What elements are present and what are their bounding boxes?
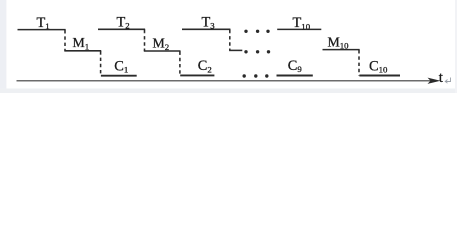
corner stub T1 bbox=[64, 30, 66, 34]
segment T10 bbox=[277, 28, 321, 30]
svg-text:M1: M1 bbox=[73, 35, 90, 51]
dashed drop T2 to M2 bbox=[144, 33, 146, 51]
dashed drop M1 to C1 bbox=[100, 54, 102, 75]
segment M10 bbox=[323, 49, 360, 51]
svg-text:C10: C10 bbox=[369, 58, 388, 74]
svg-text:M10: M10 bbox=[328, 34, 350, 50]
svg-text:t: t bbox=[439, 70, 444, 86]
ellipsis dots M row bbox=[244, 50, 270, 53]
svg-text:C1: C1 bbox=[114, 59, 128, 75]
corner stub M10 bbox=[358, 50, 360, 54]
svg-text:M2: M2 bbox=[153, 36, 170, 52]
corner stub M1 bbox=[100, 51, 102, 55]
axis arrowhead bbox=[428, 78, 441, 84]
scan edge bottom band bbox=[0, 89, 457, 94]
segment C1 bbox=[101, 75, 137, 77]
segment C2 bbox=[180, 74, 214, 76]
dashed drop T3 to M3 bbox=[229, 33, 231, 51]
dashed drop T1 to M1 bbox=[64, 33, 66, 51]
ellipsis dots C row bbox=[243, 74, 269, 77]
segment C10 bbox=[359, 75, 400, 77]
svg-text:C9: C9 bbox=[288, 58, 303, 74]
corner stub T2 bbox=[144, 29, 146, 33]
dashed drop M2 to C2 bbox=[179, 55, 181, 76]
svg-text:T1: T1 bbox=[37, 15, 50, 31]
scan edge right band bbox=[455, 0, 457, 93]
segment C9 bbox=[277, 75, 313, 77]
corner stub M2 bbox=[179, 51, 181, 55]
svg-text:T3: T3 bbox=[202, 15, 216, 31]
segment M3 stub before ellipsis bbox=[229, 49, 242, 51]
scan edge left band bbox=[0, 0, 6, 93]
svg-text:T10: T10 bbox=[293, 15, 311, 31]
faint return mark after t bbox=[445, 78, 450, 84]
segment M2 bbox=[144, 50, 181, 52]
corner stub T3 bbox=[229, 29, 231, 33]
segment M1 bbox=[64, 50, 101, 52]
segment T3 bbox=[182, 28, 230, 30]
svg-text:T2: T2 bbox=[117, 15, 130, 31]
segment T1 bbox=[18, 29, 66, 31]
svg-text:C2: C2 bbox=[198, 58, 212, 74]
time axis bbox=[17, 80, 435, 82]
dashed drop M10 to C10 bbox=[358, 53, 360, 75]
ellipsis dots T row bbox=[244, 30, 269, 33]
segment T2 bbox=[98, 28, 145, 30]
